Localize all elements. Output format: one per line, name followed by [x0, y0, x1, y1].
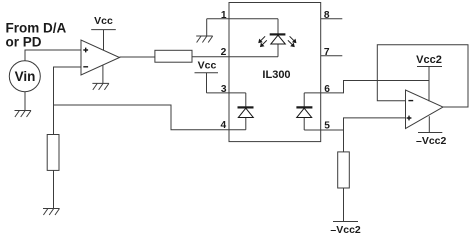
svg-text:4: 4 [221, 120, 227, 131]
svg-text:Vcc: Vcc [198, 60, 217, 72]
svg-text:8: 8 [324, 10, 330, 21]
svg-text:5: 5 [324, 121, 330, 132]
svg-text:IL300: IL300 [262, 69, 290, 81]
svg-text:–Vcc2: –Vcc2 [330, 224, 361, 236]
svg-text:Vcc2: Vcc2 [416, 54, 442, 66]
svg-text:or PD: or PD [6, 35, 42, 50]
svg-text:7: 7 [324, 47, 330, 58]
svg-text:–Vcc2: –Vcc2 [416, 135, 447, 147]
svg-text:Vcc: Vcc [94, 15, 113, 27]
svg-text:From D/A: From D/A [6, 20, 67, 35]
svg-text:3: 3 [221, 84, 227, 95]
svg-text:6: 6 [324, 84, 330, 95]
svg-text:2: 2 [221, 47, 227, 58]
svg-text:Vin: Vin [15, 69, 36, 84]
svg-text:1: 1 [221, 10, 227, 21]
